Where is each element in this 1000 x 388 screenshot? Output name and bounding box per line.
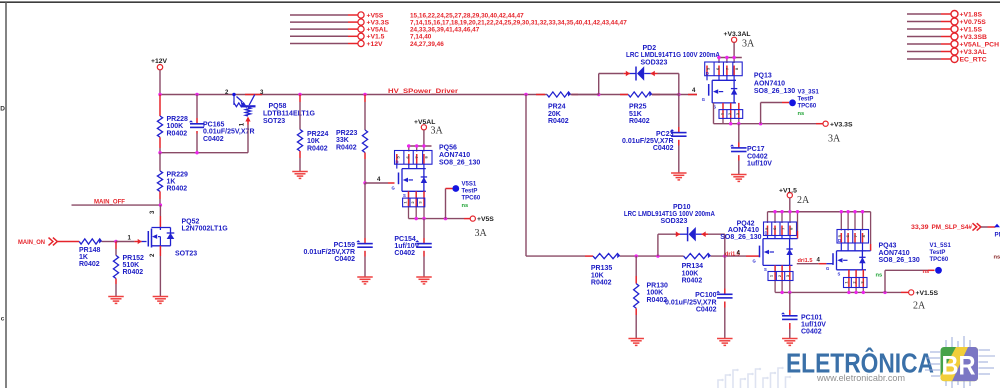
label PQ43 refdes bbox=[879, 243, 920, 264]
power stub EC_RTC (top-right) bbox=[907, 56, 987, 64]
svg-text:MAIN_OFF: MAIN_OFF bbox=[94, 199, 125, 206]
svg-text:TestP: TestP bbox=[462, 188, 478, 194]
svg-text:+V3.3AL: +V3.3AL bbox=[960, 49, 987, 56]
svg-text:C0402: C0402 bbox=[653, 145, 674, 152]
ground PC101 bbox=[782, 338, 798, 340]
wire MAIN_OFF bbox=[72, 204, 161, 206]
svg-text:TPC60: TPC60 bbox=[930, 257, 949, 263]
ground PR224 bbox=[292, 171, 308, 173]
resistor PR135 10K bbox=[591, 254, 620, 287]
svg-text:3A: 3A bbox=[475, 228, 488, 239]
svg-text:C0402: C0402 bbox=[747, 153, 768, 160]
junction MAIN_OFF at PQ52 drain bbox=[159, 203, 162, 206]
svg-text:PC23: PC23 bbox=[656, 131, 674, 138]
svg-text:PQ52: PQ52 bbox=[182, 218, 200, 225]
svg-text:PR134: PR134 bbox=[682, 263, 704, 270]
svg-text:33K: 33K bbox=[336, 137, 349, 144]
svg-text:R0402: R0402 bbox=[167, 186, 188, 193]
wire PQ42/PQ43 top rail bbox=[768, 211, 871, 213]
power stub +V5AL (top-left) bbox=[290, 26, 480, 33]
svg-text:PQ43: PQ43 bbox=[879, 243, 897, 250]
junction PQ56 out 1 bbox=[415, 217, 418, 220]
svg-text:0.01uF/25V,X7R: 0.01uF/25V,X7R bbox=[665, 299, 717, 306]
svg-text:D: D bbox=[0, 106, 5, 113]
svg-text:G: G bbox=[392, 186, 395, 191]
junction rail at PR223 bbox=[363, 93, 366, 96]
svg-text:0.01uF/25V,X7R: 0.01uF/25V,X7R bbox=[203, 129, 255, 136]
svg-text:+V5S: +V5S bbox=[477, 216, 494, 223]
svg-text:R0402: R0402 bbox=[682, 278, 703, 285]
power stub +V3.3AL (top-right) bbox=[907, 48, 987, 56]
svg-text:S: S bbox=[838, 271, 841, 276]
junction PQ43 top stubs bbox=[840, 210, 865, 213]
svg-text:SO8_26_130: SO8_26_130 bbox=[879, 257, 920, 264]
resistor PR24 20K bbox=[547, 92, 599, 125]
wire +V3.3AL to PQ13 bbox=[733, 42, 735, 57]
mosfet PQ43 AON7410 bbox=[826, 212, 869, 293]
svg-text:PC17: PC17 bbox=[747, 146, 765, 153]
svg-text:15,16,22,24,25,27,28,29,30,40,: 15,16,22,24,25,27,28,29,30,40,42,44,47 bbox=[410, 12, 524, 19]
svg-text:ns: ns bbox=[876, 273, 883, 279]
svg-text:LDTB114ELT1G: LDTB114ELT1G bbox=[263, 110, 316, 117]
svg-text:20K: 20K bbox=[548, 111, 561, 118]
svg-text:SOT23: SOT23 bbox=[263, 118, 285, 125]
svg-text:TPC60: TPC60 bbox=[462, 195, 481, 201]
svg-text:LRC LMDL914T1G 100V 200mA: LRC LMDL914T1G 100V 200mA bbox=[624, 211, 715, 218]
resistor PR148 1K bbox=[79, 239, 116, 268]
resistor PR130 100K bbox=[634, 256, 668, 338]
svg-text:R0402: R0402 bbox=[79, 261, 100, 268]
power +12V bbox=[151, 58, 168, 70]
svg-text:R0402: R0402 bbox=[548, 118, 569, 125]
svg-text:100K: 100K bbox=[167, 123, 184, 130]
junction out rail at PQ43 pin3 bbox=[862, 291, 865, 294]
svg-text:PC165: PC165 bbox=[203, 122, 225, 129]
label PQ52 refdes bbox=[175, 218, 228, 257]
svg-text:PR152: PR152 bbox=[123, 255, 145, 262]
svg-text:+V3.3AL: +V3.3AL bbox=[724, 31, 751, 38]
junction rail at PR224 bbox=[298, 93, 301, 96]
power stub +V5S (top-left) bbox=[290, 12, 524, 19]
svg-text:R0402: R0402 bbox=[629, 118, 650, 125]
svg-text:+V1.8S: +V1.8S bbox=[960, 11, 983, 18]
label PQ58 refdes bbox=[263, 103, 316, 125]
svg-text:10K: 10K bbox=[307, 138, 320, 145]
wire +V1.5 to top rail bbox=[789, 198, 791, 212]
svg-text:C0402: C0402 bbox=[696, 307, 717, 314]
capacitor PC17 1uf/10V bbox=[730, 124, 772, 174]
svg-text:R0402: R0402 bbox=[167, 130, 188, 137]
junction PQ56 testpoint drop bbox=[444, 217, 447, 220]
power output +V5S bbox=[470, 216, 494, 223]
svg-text:PQ13: PQ13 bbox=[754, 73, 772, 80]
svg-text:7,14,40: 7,14,40 bbox=[410, 34, 432, 41]
svg-text:c: c bbox=[1, 316, 5, 323]
ground PC154 bbox=[416, 276, 432, 278]
svg-text:PR228: PR228 bbox=[167, 116, 189, 123]
svg-text:0.01uF/25V,X7R: 0.01uF/25V,X7R bbox=[304, 249, 356, 256]
svg-text:+12V: +12V bbox=[367, 41, 384, 48]
svg-text:R0402: R0402 bbox=[591, 280, 612, 287]
label PQ13 refdes bbox=[754, 73, 795, 95]
svg-text:10K: 10K bbox=[591, 272, 604, 279]
svg-text:V5S1: V5S1 bbox=[462, 181, 477, 187]
svg-text:G: G bbox=[753, 259, 756, 264]
svg-text:+V5AL: +V5AL bbox=[367, 26, 388, 33]
svg-text:1K: 1K bbox=[167, 179, 176, 186]
resistor PR223 33K bbox=[336, 95, 368, 184]
testpoint V5S1 bbox=[446, 181, 481, 218]
wire PQ13 output +V3.3S bbox=[714, 123, 823, 125]
svg-text:TPC60: TPC60 bbox=[798, 103, 817, 109]
junction rail at down-feed bbox=[524, 93, 527, 96]
svg-text:PC100: PC100 bbox=[695, 292, 717, 299]
svg-text:PR130: PR130 bbox=[647, 283, 669, 290]
power output +V1.5S bbox=[909, 290, 939, 297]
wire rail down-feed to lower rail bbox=[526, 95, 593, 257]
svg-text:S: S bbox=[403, 193, 406, 198]
svg-text:MAIN_ON: MAIN_ON bbox=[18, 239, 45, 246]
svg-text:7,14,15,16,17,18,19,20,21,22,2: 7,14,15,16,17,18,19,20,21,22,24,25,29,30… bbox=[410, 19, 627, 26]
transistor PQ52 L2N7002LT1G bbox=[142, 205, 175, 296]
svg-text:LRC LMDL914T1G 100V 200mA: LRC LMDL914T1G 100V 200mA bbox=[626, 52, 720, 59]
svg-text:100K: 100K bbox=[647, 290, 664, 297]
junction PQ56 out 2 bbox=[422, 217, 425, 220]
svg-text:PD2: PD2 bbox=[643, 45, 657, 52]
svg-text:ns: ns bbox=[462, 203, 469, 209]
ground PR130 bbox=[628, 338, 644, 340]
mosfet PQ13 AON7410 bbox=[702, 58, 743, 124]
capacitor PC100 0.01uF bbox=[665, 256, 733, 338]
junction PQ13 out 2 bbox=[737, 122, 740, 125]
ground PC159 bbox=[357, 276, 373, 278]
svg-text:D: D bbox=[765, 231, 768, 236]
net port PM_SLP_S4# bbox=[911, 223, 1000, 238]
svg-text:PC159: PC159 bbox=[334, 242, 356, 249]
wire PQ13 source-left corner bbox=[713, 103, 715, 124]
svg-text:G: G bbox=[702, 97, 705, 102]
label PD2 refdes bbox=[626, 45, 720, 66]
svg-text:+V1.5S: +V1.5S bbox=[916, 290, 939, 297]
svg-text:SOT23: SOT23 bbox=[175, 250, 197, 257]
junction rail at PC165 bbox=[195, 93, 198, 96]
svg-text:1uf/10V: 1uf/10V bbox=[801, 322, 826, 329]
svg-text:SO8_26_130: SO8_26_130 bbox=[720, 234, 761, 241]
power +V1.5 bbox=[779, 187, 797, 197]
capacitor PC165 0.01uF bbox=[189, 95, 255, 153]
svg-text:PC101: PC101 bbox=[801, 314, 823, 321]
svg-text:C0402: C0402 bbox=[394, 250, 415, 257]
svg-text:+V3.3SB: +V3.3SB bbox=[960, 34, 987, 41]
wire PQ42/PQ43 output rail +V1.5S bbox=[775, 291, 908, 293]
svg-text:TestP: TestP bbox=[930, 250, 946, 256]
power stub +V1.5S (top-right) bbox=[907, 26, 982, 34]
svg-text:EC_RTC: EC_RTC bbox=[960, 56, 987, 63]
junction PQ13 out 1 bbox=[729, 122, 732, 125]
svg-text:100K: 100K bbox=[682, 270, 699, 277]
svg-text:AON7410: AON7410 bbox=[754, 80, 785, 87]
svg-text:ns: ns bbox=[923, 269, 930, 275]
svg-text:R0402: R0402 bbox=[123, 269, 144, 276]
svg-text:AON7410: AON7410 bbox=[439, 152, 470, 159]
border frame left line bbox=[5, 2, 7, 388]
power +V3.3AL bbox=[724, 31, 751, 42]
ground PC23 bbox=[671, 172, 687, 174]
junction PR148/PR152 bbox=[114, 240, 117, 243]
diode PD2 LMDL914T1G bbox=[599, 66, 679, 94]
svg-text:1uf/10V: 1uf/10V bbox=[394, 243, 419, 250]
wire PQ56 output +V5S bbox=[409, 218, 471, 220]
wire lower rail to PQ42 gate bbox=[746, 255, 760, 257]
svg-text:24,27,39,46: 24,27,39,46 bbox=[410, 41, 444, 48]
svg-text:PR229: PR229 bbox=[167, 171, 189, 178]
svg-text:www.eletronicabr.com: www.eletronicabr.com bbox=[816, 373, 905, 383]
logo chip BR bbox=[925, 336, 995, 388]
svg-text:+V5S: +V5S bbox=[367, 12, 384, 19]
svg-text:ns: ns bbox=[994, 255, 1000, 261]
mosfet PQ56 AON7410 bbox=[392, 146, 433, 219]
svg-text:51K: 51K bbox=[629, 111, 642, 118]
junction PQ13 testpoint drop bbox=[759, 122, 762, 125]
svg-text:SOD323: SOD323 bbox=[641, 59, 668, 66]
ground PC17 bbox=[731, 174, 747, 176]
junction out rail at PQ42 pin2 bbox=[780, 291, 783, 294]
svg-text:+V1.5: +V1.5 bbox=[367, 34, 385, 41]
power output +V3.3S bbox=[823, 121, 853, 128]
power stub +12V (top-left) bbox=[290, 40, 444, 47]
svg-text:PQ56: PQ56 bbox=[439, 144, 457, 151]
power stub +V1.5 (top-left) bbox=[290, 33, 432, 40]
junction PQ58 pin2 bbox=[232, 93, 235, 96]
svg-text:TestP: TestP bbox=[798, 96, 814, 102]
svg-text:R0402: R0402 bbox=[336, 144, 357, 151]
svg-text:D: D bbox=[396, 159, 399, 164]
svg-text:SOD323: SOD323 bbox=[661, 218, 688, 225]
resistor PR25 51K bbox=[628, 92, 679, 125]
power stub +V3.3S (top-left) bbox=[290, 19, 627, 26]
ground PR152 bbox=[108, 296, 124, 298]
svg-text:0.01uF/25V,X7R: 0.01uF/25V,X7R bbox=[622, 138, 674, 145]
svg-text:1uf/10V: 1uf/10V bbox=[747, 161, 772, 168]
svg-text:24,33,36,39,41,43,46,47: 24,33,36,39,41,43,46,47 bbox=[410, 26, 480, 33]
junction out rail at PQ43 pin2 bbox=[854, 291, 857, 294]
resistor PR229 1K bbox=[157, 153, 188, 205]
svg-text:AON7410: AON7410 bbox=[879, 250, 910, 257]
svg-text:PC154: PC154 bbox=[394, 236, 416, 243]
svg-text:PM_SLP_S4#: PM_SLP_S4# bbox=[932, 224, 973, 231]
svg-text:2A: 2A bbox=[797, 195, 810, 206]
junction PQ13 top stubs bbox=[717, 56, 736, 59]
svg-text:+12V: +12V bbox=[151, 58, 168, 65]
junction out rail at testpoint bbox=[883, 291, 886, 294]
junction PQ42 top stubs bbox=[773, 210, 799, 213]
svg-text:PR24: PR24 bbox=[548, 104, 566, 111]
power stub +V0.75S (top-right) bbox=[907, 18, 986, 26]
svg-text:+V5AL_PCH: +V5AL_PCH bbox=[960, 41, 1000, 48]
junction lower rail PD10 right bbox=[723, 254, 726, 257]
svg-text:HV_SPower_Driver: HV_SPower_Driver bbox=[388, 88, 458, 95]
net port MAIN_ON bbox=[18, 238, 79, 247]
svg-text:SO8_26_130: SO8_26_130 bbox=[754, 88, 795, 95]
ground PC100 bbox=[717, 338, 733, 340]
label PQ42 refdes bbox=[720, 221, 761, 241]
svg-text:BR: BR bbox=[942, 351, 976, 381]
diode PD10 LMDL914T1G bbox=[658, 227, 725, 256]
power stub +V5AL_PCH (top-right) bbox=[907, 41, 999, 49]
svg-text:1K: 1K bbox=[79, 254, 88, 261]
resistor PR134 100K bbox=[682, 254, 711, 285]
junction out rail at PQ43 pin1 bbox=[847, 291, 850, 294]
wire PQ43 drain corner bbox=[866, 212, 871, 251]
junction rail at +12V bbox=[158, 93, 161, 96]
label PD10 refdes bbox=[624, 204, 715, 225]
svg-text:33,39: 33,39 bbox=[911, 224, 929, 231]
junction rail at PD2 left bbox=[597, 93, 600, 96]
capacitor PC23 0.01uF bbox=[622, 95, 687, 173]
svg-text:2A: 2A bbox=[913, 301, 926, 312]
ground PQ52 bbox=[153, 296, 169, 298]
svg-text:+V3.3S: +V3.3S bbox=[367, 19, 390, 26]
wire +12V to rail bbox=[159, 70, 161, 95]
junction PQ56 top stubs bbox=[407, 144, 426, 147]
capacitor PC101 1uf/10V bbox=[781, 292, 826, 338]
svg-text:PR25: PR25 bbox=[629, 104, 647, 111]
svg-text:D: D bbox=[838, 238, 841, 243]
border frame top line bbox=[0, 1, 1000, 3]
mosfet PQ42 AON7410 bbox=[753, 212, 797, 293]
power stub +V1.8S (top-right) bbox=[907, 11, 982, 19]
testpoint V3_3S1 bbox=[761, 89, 820, 123]
svg-text:G: G bbox=[826, 266, 829, 271]
svg-text:SO8_26_130: SO8_26_130 bbox=[439, 160, 480, 167]
svg-text:PR223: PR223 bbox=[336, 130, 358, 137]
junction bottom link at PR228 bbox=[158, 151, 161, 154]
wire PR223 to PQ56 gate pin 4 bbox=[365, 182, 395, 184]
transistor PQ58 LDTB114ELT1G bbox=[234, 95, 256, 153]
resistor PR228 100K bbox=[157, 95, 188, 153]
svg-text:PR224: PR224 bbox=[307, 131, 329, 138]
svg-text:ns: ns bbox=[798, 111, 805, 117]
junction bottom link at PC165 bbox=[195, 151, 198, 154]
junction lower rail PD10 left bbox=[656, 254, 659, 257]
svg-text:S: S bbox=[764, 267, 767, 272]
wire lower rail bbox=[620, 255, 746, 257]
wire PQ43 gate stub bbox=[797, 263, 833, 265]
wire PR148 to PQ52 gate bbox=[116, 239, 142, 244]
svg-text:C0402: C0402 bbox=[203, 136, 224, 143]
svg-text:C0402: C0402 bbox=[334, 256, 355, 263]
resistor PR224 10K bbox=[297, 95, 328, 172]
capacitor PC159 0.01uF bbox=[304, 183, 373, 277]
svg-text:PR148: PR148 bbox=[79, 247, 101, 254]
svg-text:3A: 3A bbox=[431, 126, 444, 137]
svg-text:R0402: R0402 bbox=[307, 145, 328, 152]
svg-text:D: D bbox=[706, 71, 709, 76]
power stub +V3.3SB (top-right) bbox=[907, 33, 987, 41]
svg-text:V1_5S1: V1_5S1 bbox=[930, 243, 952, 249]
junction out rail at PC101 bbox=[788, 291, 791, 294]
svg-text:PR135: PR135 bbox=[591, 265, 613, 272]
wire main rail HV_SPower_Driver bbox=[160, 94, 697, 96]
svg-text:V3_3S1: V3_3S1 bbox=[798, 89, 820, 95]
svg-text:PM: PM bbox=[995, 232, 1000, 239]
svg-text:C0402: C0402 bbox=[801, 329, 822, 336]
svg-text:+V3.3S: +V3.3S bbox=[830, 121, 853, 128]
resistor PR152 510K bbox=[113, 242, 144, 297]
svg-text:510K: 510K bbox=[123, 262, 140, 269]
label PQ56 refdes bbox=[439, 144, 480, 166]
svg-text:PQ58: PQ58 bbox=[269, 103, 287, 110]
watermark circuit pattern left bbox=[718, 367, 791, 388]
svg-text:3A: 3A bbox=[828, 134, 841, 145]
testpoint V1_5S1 bbox=[876, 243, 952, 293]
svg-text:L2N7002LT1G: L2N7002LT1G bbox=[182, 226, 229, 233]
wire +V5AL to PQ56 bbox=[423, 130, 425, 146]
junction PR223 bottom / PQ56 gate bbox=[363, 181, 366, 184]
svg-text:+V1.5S: +V1.5S bbox=[960, 26, 983, 33]
wire PR228/PC165 bottom link bbox=[160, 152, 248, 154]
power +V5AL bbox=[414, 119, 435, 130]
svg-text:+V0.75S: +V0.75S bbox=[960, 19, 987, 26]
junction lower rail PR130 bbox=[635, 254, 638, 257]
svg-text:3A: 3A bbox=[742, 39, 755, 50]
capacitor PC154 1uf/10V bbox=[394, 219, 431, 277]
junction rail at PC23 bbox=[677, 93, 680, 96]
